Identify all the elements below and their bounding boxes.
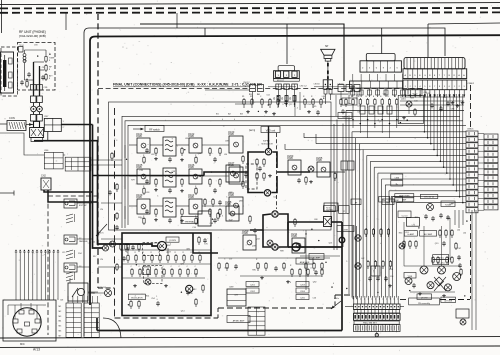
row 2 ground	[155, 188, 157, 190]
bottom rule line 2	[0, 346, 500, 347]
row 3 ground	[155, 218, 157, 220]
svg-text:PB assembly: PB assembly	[418, 303, 430, 305]
label box pair 2	[391, 174, 403, 180]
bottom connector row C	[354, 313, 401, 320]
X transistor box	[324, 217, 332, 227]
dashed boundary y=318	[115, 317, 219, 319]
svg-text:CN#x: CN#x	[334, 298, 339, 300]
stacked label c	[296, 282, 309, 287]
bottom connector row D	[354, 325, 401, 332]
svg-text:L98: L98	[146, 192, 149, 194]
row 3 resistor a	[155, 208, 157, 210]
long fan wire 3	[285, 149, 363, 151]
long fan wire 1	[304, 137, 356, 139]
bus lines right short	[400, 96, 464, 98]
svg-text:Q13: Q13	[329, 242, 333, 244]
antenna block parts	[9, 58, 13, 64]
bottom drv labels	[417, 294, 432, 300]
jack J1 EXT SP	[64, 199, 77, 208]
svg-text:CN/B: CN/B	[136, 196, 142, 199]
AF bottom parts	[130, 300, 132, 302]
dashed boundary vertical x=98	[97, 14, 99, 288]
vertical wires below plugs	[294, 95, 296, 116]
page left edge	[1, 0, 3, 33]
svg-text:8x: 8x	[396, 184, 398, 186]
warm up label	[338, 113, 352, 119]
AF wires	[122, 249, 211, 251]
svg-text:Q72: Q72	[289, 104, 293, 106]
MIC harness wires	[15, 252, 17, 300]
page top edge line	[0, 3, 500, 5]
svg-text:x: x	[397, 299, 398, 301]
mid cluster wires	[218, 257, 330, 259]
svg-text:CN/B: CN/B	[188, 166, 194, 169]
svg-text:Q82: Q82	[313, 282, 317, 284]
thick coax wire to mixer	[34, 140, 98, 142]
bottom rule line 1	[0, 337, 500, 338]
top dashed boundary line 2	[0, 11, 500, 13]
bold junction circle 2	[339, 237, 345, 243]
svg-text:Sw: Sw	[348, 103, 351, 105]
relay cross wires	[434, 277, 446, 291]
cluster below speaker	[304, 98, 306, 100]
svg-text:R39: R39	[23, 61, 26, 63]
AF transistor Q302	[145, 279, 151, 285]
svg-text:Current: Current	[402, 214, 408, 217]
svg-text:8: 8	[49, 69, 50, 71]
VOX transistor Q602	[355, 263, 361, 269]
AF thick step wire	[193, 233, 218, 253]
svg-text:C47: C47	[229, 220, 232, 222]
row 1 resistor d	[219, 147, 221, 149]
VOX CN label	[337, 226, 354, 232]
row 1 resistor a	[155, 147, 157, 149]
svg-text:C78: C78	[224, 268, 227, 270]
svg-text:4: 4	[70, 254, 71, 256]
row 2 capacitor	[146, 179, 148, 181]
crystal filter CF3	[163, 198, 176, 217]
svg-text:6: 6	[290, 282, 291, 284]
svg-text:CN801: CN801	[467, 129, 474, 131]
bottom connector pin stubs	[353, 296, 355, 304]
transistor Q105	[137, 169, 150, 184]
AF resistor row 1	[127, 254, 129, 256]
AF transistor Q301 (bold)	[158, 242, 167, 251]
svg-text:Q86: Q86	[186, 249, 190, 251]
modulator inner parts	[256, 158, 258, 160]
AF label	[351, 199, 361, 205]
svg-text:x: x	[390, 299, 391, 301]
MIC internal wires	[20, 303, 22, 310]
wire relay feed	[286, 24, 288, 64]
wire stub from dashed line	[176, 13, 178, 28]
RF unit resistor R1	[45, 55, 47, 57]
VOX label box	[309, 254, 324, 260]
transistor Q204	[308, 166, 314, 172]
svg-text:M75 GM TA: M75 GM TA	[424, 195, 434, 198]
svg-text:A/13: A/13	[33, 348, 40, 352]
relay label bar	[274, 79, 300, 82]
MIC pin 1	[19, 310, 24, 314]
row 3 resistor b	[181, 208, 183, 210]
label box pair	[379, 197, 390, 203]
connector CN201 socket plate	[350, 81, 403, 88]
dashed boundary vertical x=470	[470, 85, 472, 130]
right edge caps	[455, 242, 457, 244]
dashed boundary left low y=196	[48, 195, 98, 197]
thick wire CN7 to bus	[61, 124, 92, 126]
svg-text:Q50: Q50	[356, 95, 360, 97]
svg-text:PADDLE: PADDLE	[79, 240, 88, 243]
jack J1 contacts	[66, 214, 73, 216]
cluster below plugs left	[243, 98, 245, 100]
svg-text:C47: C47	[458, 248, 461, 250]
VOX cluster 1	[365, 228, 367, 230]
svg-text:MODULATOR: MODULATOR	[131, 297, 143, 300]
svg-text:L38: L38	[185, 138, 188, 140]
svg-text:CN/B: CN/B	[136, 135, 142, 138]
svg-text:L54: L54	[457, 230, 460, 232]
svg-text:FINAL UNIT (CONNECTIONS) (X45-: FINAL UNIT (CONNECTIONS) (X45-3016-00) (…	[113, 83, 262, 87]
svg-text:8: 8	[152, 246, 153, 248]
svg-text:C44: C44	[414, 101, 417, 103]
regulator wires	[403, 222, 405, 266]
coax junction box CN3	[33, 121, 35, 128]
svg-text:L42: L42	[361, 258, 364, 260]
svg-text:CN/B: CN/B	[228, 133, 234, 136]
coax plug pair boxes 2	[31, 115, 37, 122]
mid cluster parts 2	[291, 268, 293, 270]
svg-text:L89: L89	[358, 112, 361, 114]
arrow pointer bottom	[331, 301, 341, 309]
plug wires left	[205, 89, 250, 91]
outer unit frame (thin)	[84, 28, 205, 336]
svg-text:CN6: CN6	[44, 150, 49, 152]
amp label pair	[395, 194, 414, 198]
regulator cluster	[403, 240, 405, 242]
N60B label	[441, 201, 455, 207]
relay amp transistor Q508	[445, 284, 452, 291]
svg-text:C86: C86	[383, 94, 386, 96]
bottom connector label bar	[354, 321, 399, 324]
transistor Q103	[229, 136, 243, 153]
row 2 resistor b	[181, 178, 183, 180]
svg-text:Q13: Q13	[256, 239, 260, 241]
row 2 resistor a	[155, 178, 157, 180]
svg-text:C96: C96	[307, 104, 310, 106]
relay amp transistor Q507	[427, 282, 434, 289]
svg-text:CN9: CN9	[229, 287, 234, 289]
svg-text:AMBIT PWR: AMBIT PWR	[399, 195, 410, 198]
jack J2 contacts	[66, 250, 73, 252]
transistor Q109	[137, 199, 150, 214]
thick wire to bottom bus	[288, 246, 342, 248]
row 2 resistor d	[219, 178, 221, 180]
connector CN802 bracket	[404, 58, 465, 69]
svg-text:1: 1	[156, 296, 157, 298]
right stage parts	[305, 176, 307, 178]
coax connector circles	[31, 106, 37, 112]
crystal filter CF1	[163, 137, 176, 156]
svg-text:x: x	[353, 299, 354, 301]
super label	[323, 206, 335, 212]
svg-text:C98: C98	[172, 171, 175, 173]
connector grid CN10	[248, 307, 265, 335]
row 1 capacitor	[146, 148, 148, 150]
MIC harness terminals	[15, 250, 16, 251]
MIC pin 7	[25, 322, 30, 326]
thick wire upper link	[288, 221, 324, 223]
mixer thick wire row2	[93, 175, 110, 177]
thick bottom wire end	[96, 318, 98, 331]
jack wires	[77, 202, 93, 204]
RF unit thick feeders	[33, 62, 35, 90]
svg-text:R79: R79	[131, 179, 134, 181]
long fan wire 2	[316, 143, 359, 145]
svg-text:THERMAL: THERMAL	[185, 220, 196, 223]
svg-text:C14: C14	[273, 197, 276, 199]
svg-text:8: 8	[437, 263, 438, 265]
svg-text:4: 4	[234, 119, 235, 121]
svg-text:GEN: GEN	[386, 202, 391, 204]
svg-text:4: 4	[135, 296, 136, 298]
row 1 resistor b	[181, 147, 183, 149]
transistor Q504	[427, 204, 434, 211]
connector CN801 strip	[466, 131, 478, 136]
modulator dashed boundary	[276, 133, 278, 209]
svg-text:Q31: Q31	[306, 275, 310, 277]
carrier row parts	[217, 212, 219, 214]
carrier stage box left	[226, 206, 239, 221]
term box T5	[341, 161, 354, 170]
svg-text:Q14: Q14	[181, 311, 185, 313]
GEN label	[382, 199, 394, 205]
plug group wires	[340, 92, 342, 101]
row 2 resistor c	[209, 178, 211, 180]
MIC pin 6	[32, 329, 37, 333]
antenna block box	[1, 52, 14, 93]
svg-text:C26: C26	[313, 298, 316, 300]
connector CN802 pin row	[403, 80, 467, 90]
svg-text:9: 9	[346, 261, 347, 263]
svg-text:L54: L54	[224, 154, 227, 156]
RF unit resistor R3	[45, 73, 47, 75]
nested long box line 1	[122, 116, 460, 228]
transistor Q803	[105, 290, 112, 297]
svg-text:C54: C54	[92, 241, 95, 243]
svg-text:R17: R17	[93, 256, 96, 258]
relay plug row	[276, 84, 282, 89]
modulator transistor Q202 (bold)	[264, 190, 270, 196]
wire from boundary x=66	[65, 13, 67, 30]
svg-text:CN/B: CN/B	[291, 235, 297, 238]
svg-text:AF/MIC AMP: AF/MIC AMP	[233, 319, 245, 322]
svg-text:x: x	[382, 299, 383, 301]
CN8 top wires	[67, 296, 69, 303]
svg-text:CN2: CN2	[41, 175, 46, 178]
CN6 wires right	[91, 159, 122, 161]
row 3 resistor d	[219, 208, 221, 210]
speaker plug pair	[323, 80, 327, 89]
transistor Q802	[110, 241, 116, 247]
center bottom vertical bus	[351, 132, 353, 298]
connector CN201 feed wire	[381, 28, 383, 54]
svg-text:MODULATOR: MODULATOR	[262, 142, 274, 145]
svg-text:CN/B: CN/B	[242, 232, 248, 235]
current mirror label	[398, 211, 411, 217]
relay driver cluster	[120, 243, 122, 245]
svg-text:x: x	[371, 299, 372, 301]
svg-text:SP: SP	[325, 45, 329, 48]
svg-text:C52: C52	[266, 95, 269, 97]
svg-text:3: 3	[282, 104, 283, 106]
dashed boundary y=308	[218, 307, 335, 309]
svg-text:R71: R71	[277, 248, 280, 250]
svg-text:[X44-3210-00] (D/B): [X44-3210-00] (D/B)	[19, 34, 46, 38]
stage box right B	[317, 162, 330, 177]
transistor Q101	[137, 138, 150, 153]
cluster below plugs mid	[261, 98, 263, 100]
right edge verticals	[454, 210, 456, 225]
svg-text:ALC AMP: ALC AMP	[424, 233, 433, 236]
relay amp transistor Q503	[453, 273, 461, 281]
jack J2 KEY PADDLE	[64, 235, 77, 244]
thick wire bus A	[93, 125, 104, 249]
CN201 pin boxes	[351, 90, 355, 95]
MIC pin 4	[35, 319, 40, 323]
relay amp transistor Q502	[438, 266, 446, 274]
transistor Q801	[103, 245, 109, 251]
svg-text:L54: L54	[463, 232, 466, 234]
bottom connector row B	[354, 310, 400, 314]
svg-text:R36: R36	[167, 245, 170, 247]
dashed boundary horizontal y=88	[98, 88, 425, 90]
relay amp transistor Q501	[420, 266, 428, 274]
relay connector block	[274, 71, 300, 79]
RF unit coil L1	[23, 54, 26, 57]
svg-text:5: 5	[226, 197, 227, 199]
CN801 fan wires	[352, 131, 466, 133]
svg-text:R91: R91	[389, 269, 392, 271]
speaker plug pins	[324, 90, 327, 95]
svg-text:x: x	[368, 299, 369, 301]
ALC AMP label	[420, 231, 437, 237]
left mid small parts	[116, 212, 118, 214]
thermal control label 2	[339, 206, 350, 214]
right bottom circle	[460, 319, 466, 325]
svg-text:CN#12: CN#12	[243, 82, 250, 84]
dashed component box	[246, 164, 257, 189]
antenna coil (bold)	[3, 60, 6, 87]
svg-text:C68: C68	[314, 219, 317, 221]
dashed boundary y=295	[335, 294, 352, 296]
svg-text:L75: L75	[412, 224, 415, 226]
svg-text:1: 1	[177, 146, 178, 148]
jack J3 PHONES	[64, 263, 77, 272]
cluster under CN201 row 2	[360, 106, 365, 114]
connector CN201 body	[360, 61, 401, 72]
RF unit connector pads	[31, 85, 37, 91]
transistor Q106	[189, 169, 202, 184]
wire modulator right thin	[308, 171, 345, 173]
svg-text:Q75: Q75	[379, 121, 383, 123]
right resistor cluster	[439, 229, 441, 231]
svg-text:2: 2	[243, 206, 244, 208]
inner unit frame (thick)	[90, 35, 500, 305]
svg-text:C38: C38	[210, 223, 213, 225]
dashed corner x=218	[217, 308, 219, 318]
svg-text:RF switch: RF switch	[149, 128, 160, 131]
Q505 box	[407, 218, 420, 227]
svg-text:Q69: Q69	[449, 204, 453, 206]
svg-text:EXT SP: EXT SP	[79, 205, 87, 207]
cluster under CN201	[352, 98, 354, 100]
thick wire CN2 b	[48, 190, 98, 202]
nested long box line 2	[125, 121, 463, 228]
RF unit input pad	[19, 47, 24, 53]
svg-text:R14: R14	[146, 296, 149, 298]
AF dashed box 1	[143, 242, 160, 255]
AF VOX label	[128, 294, 145, 300]
stacked label b	[246, 288, 259, 293]
svg-text:4: 4	[222, 119, 223, 121]
VOX wires	[300, 255, 340, 257]
modulator transistor Q201 (bold)	[265, 149, 271, 155]
svg-text:CN/B: CN/B	[188, 196, 194, 199]
svg-text:C54: C54	[151, 298, 154, 300]
svg-text:C57: C57	[229, 259, 232, 261]
stacked label d	[296, 288, 309, 293]
svg-text:CN# C2: CN# C2	[300, 86, 308, 88]
row 1 resistor c	[209, 147, 211, 149]
svg-text:CON: CON	[9, 116, 15, 120]
transistor Q509	[405, 278, 412, 285]
svg-text:CN/B: CN/B	[225, 203, 231, 206]
svg-text:R88: R88	[410, 97, 413, 99]
diode bridge diamond	[435, 277, 444, 286]
antenna dashed enclosure	[1, 47, 18, 96]
svg-text:L52: L52	[21, 45, 24, 47]
svg-text:Q98: Q98	[229, 192, 233, 194]
VOX cluster 3	[305, 262, 307, 264]
MIC pin 3	[13, 319, 18, 323]
top dashed boundary line 1	[0, 7, 500, 9]
svg-text:x: x	[364, 299, 365, 301]
svg-text:Q72: Q72	[234, 295, 238, 297]
svg-text:R14: R14	[78, 253, 81, 255]
svg-text:4: 4	[310, 268, 311, 270]
svg-text:C89: C89	[225, 141, 228, 143]
svg-text:Q80: Q80	[198, 153, 202, 155]
connector CN8 grid B	[84, 303, 99, 337]
svg-text:8: 8	[49, 60, 50, 62]
svg-text:R2: R2	[250, 96, 252, 98]
AF resistor row 2	[131, 268, 133, 270]
stage box right A	[288, 160, 301, 175]
svg-text:R26: R26	[138, 217, 141, 219]
MIC pin 2	[29, 310, 34, 314]
svg-text:M,U,V,T: M,U,V,T	[277, 80, 285, 82]
row 3 hanging parts	[143, 217, 145, 219]
svg-text:Q95: Q95	[313, 106, 317, 108]
svg-text:R1: R1	[242, 96, 244, 98]
svg-text:CN/B: CN/B	[343, 229, 348, 231]
dashed boundary vertical x=114.5	[114, 108, 116, 318]
AF board box (thick)	[122, 233, 211, 316]
svg-text:8x AMP: 8x AMP	[313, 256, 321, 259]
svg-text:Q86: Q86	[180, 264, 184, 266]
modulator feed wire up (thick)	[268, 126, 270, 149]
